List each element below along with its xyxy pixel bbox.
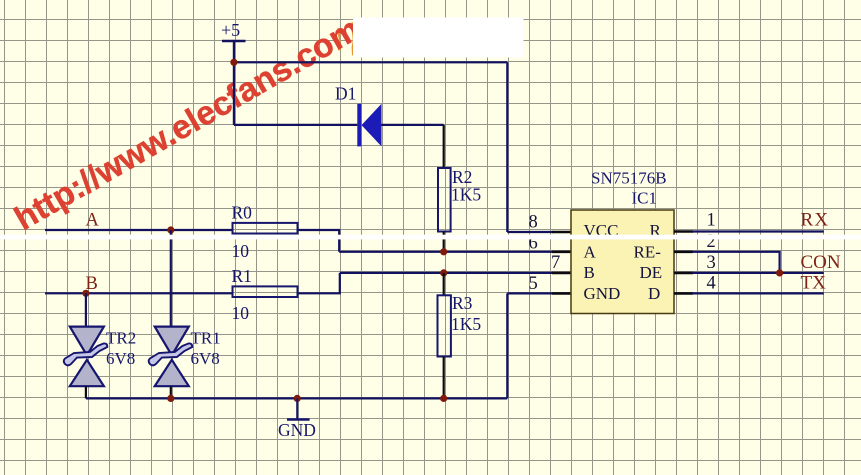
white patch rectangle [353,18,524,58]
wire +5 down to diode branch [233,62,235,125]
svg-text:1K5: 1K5 [451,185,481,205]
power bar symbol [222,40,246,42]
svg-text:10: 10 [232,241,250,261]
svg-text:1: 1 [707,210,716,230]
resistor R1 [233,286,298,297]
junction A / TR1 [167,226,174,233]
junction R3 top pin7 [440,269,447,276]
wire diode right [382,124,444,126]
wire pin7 row [340,272,553,274]
svg-text:4: 4 [707,273,716,293]
junction R2 bottom pin6 [440,248,447,255]
svg-text:A: A [584,243,597,262]
svg-text:1K5: 1K5 [451,314,481,334]
svg-text:TX: TX [801,272,827,293]
pin 6 black stub [552,251,571,254]
wire right vertical x507 down to pin8 row [506,62,508,232]
pin 4 black stub [674,292,693,295]
white horizontal band [0,235,861,240]
svg-text:TR1: TR1 [191,329,221,348]
wire pin2 jog down [692,252,780,273]
svg-text:6V8: 6V8 [191,349,220,368]
svg-text:10: 10 [232,303,250,323]
svg-text:GND: GND [278,420,316,440]
svg-text:A: A [86,211,100,231]
ground symbol [287,398,310,419]
svg-text:B: B [584,263,595,282]
svg-text:5: 5 [529,274,538,294]
svg-text:TR2: TR2 [106,329,136,348]
junction pin2-pin3 [776,269,783,276]
svg-text:D1: D1 [335,84,356,104]
svg-text:RE-: RE- [634,243,662,262]
junction GND bus [294,395,301,402]
junction R3 bus [440,395,447,402]
wire +5 vertical to junction [233,41,235,62]
pin 3 black stub [674,272,693,275]
pin 1 black stub [674,230,693,233]
wire pin6 row [339,251,553,253]
wire R0 out jog down to pin6 row [298,230,340,252]
diode D1 cathode bar [357,104,361,147]
pin 8 black stub [552,231,571,234]
svg-text:6V8: 6V8 [106,349,135,368]
svg-text:GND: GND [584,284,621,303]
TVS TR2 symbol [64,327,108,387]
svg-text:R1: R1 [232,266,252,286]
TVS TR1 symbol [149,327,193,387]
svg-text:+5: +5 [221,20,240,40]
R3 top lead [443,273,445,295]
TR2 bottom lead [85,386,87,398]
svg-text:R3: R3 [452,293,473,313]
wire diode branch left [234,124,357,126]
wire pin4 to TX [692,292,824,294]
pin 5 black stub [552,292,571,295]
wire TR1 vertical from A [170,230,172,326]
junction +5 [230,59,237,66]
junction TR1 bus [167,395,174,402]
svg-text:D: D [648,284,660,303]
resistor R0 [233,223,298,234]
svg-text:RX: RX [801,209,830,230]
wire top horizontal to x507 [234,61,507,63]
svg-text:7: 7 [551,253,560,273]
resistor R3 [438,295,451,356]
wire bottom bus [86,397,507,399]
svg-text:R0: R0 [232,203,253,223]
wire pin8 stub to IC [507,231,553,233]
wire down to R2 [443,125,445,168]
wire A horizontal [45,229,233,231]
pin 7 black stub [552,272,571,275]
wire TR2 vertical from B [85,293,87,326]
svg-text:8: 8 [529,212,538,232]
wire R1 out jog up to pin7 row [298,273,340,293]
op IC1 body SN75176B [571,210,674,314]
svg-text:3: 3 [707,253,716,273]
wire pin5 stub [507,292,553,294]
diode D1 triangle [362,104,382,147]
wire pin1 to RX [692,230,824,232]
svg-text:IC1: IC1 [632,189,658,208]
svg-text:SN75176B: SN75176B [591,168,667,187]
watermark flame fragment [337,22,355,56]
wire B horizontal [45,292,233,294]
junction B / TR2 [82,290,89,297]
resistor R2 [438,168,451,232]
TR1 bottom lead [170,386,172,398]
R2 bottom lead [443,232,445,252]
wire bus up to pin5 [506,293,508,398]
svg-text:CON: CON [801,252,841,273]
pin 2 black stub [674,251,693,254]
wire pin3 to CON [692,272,824,274]
svg-text:DE: DE [640,263,663,282]
R3 bottom lead [443,357,445,399]
